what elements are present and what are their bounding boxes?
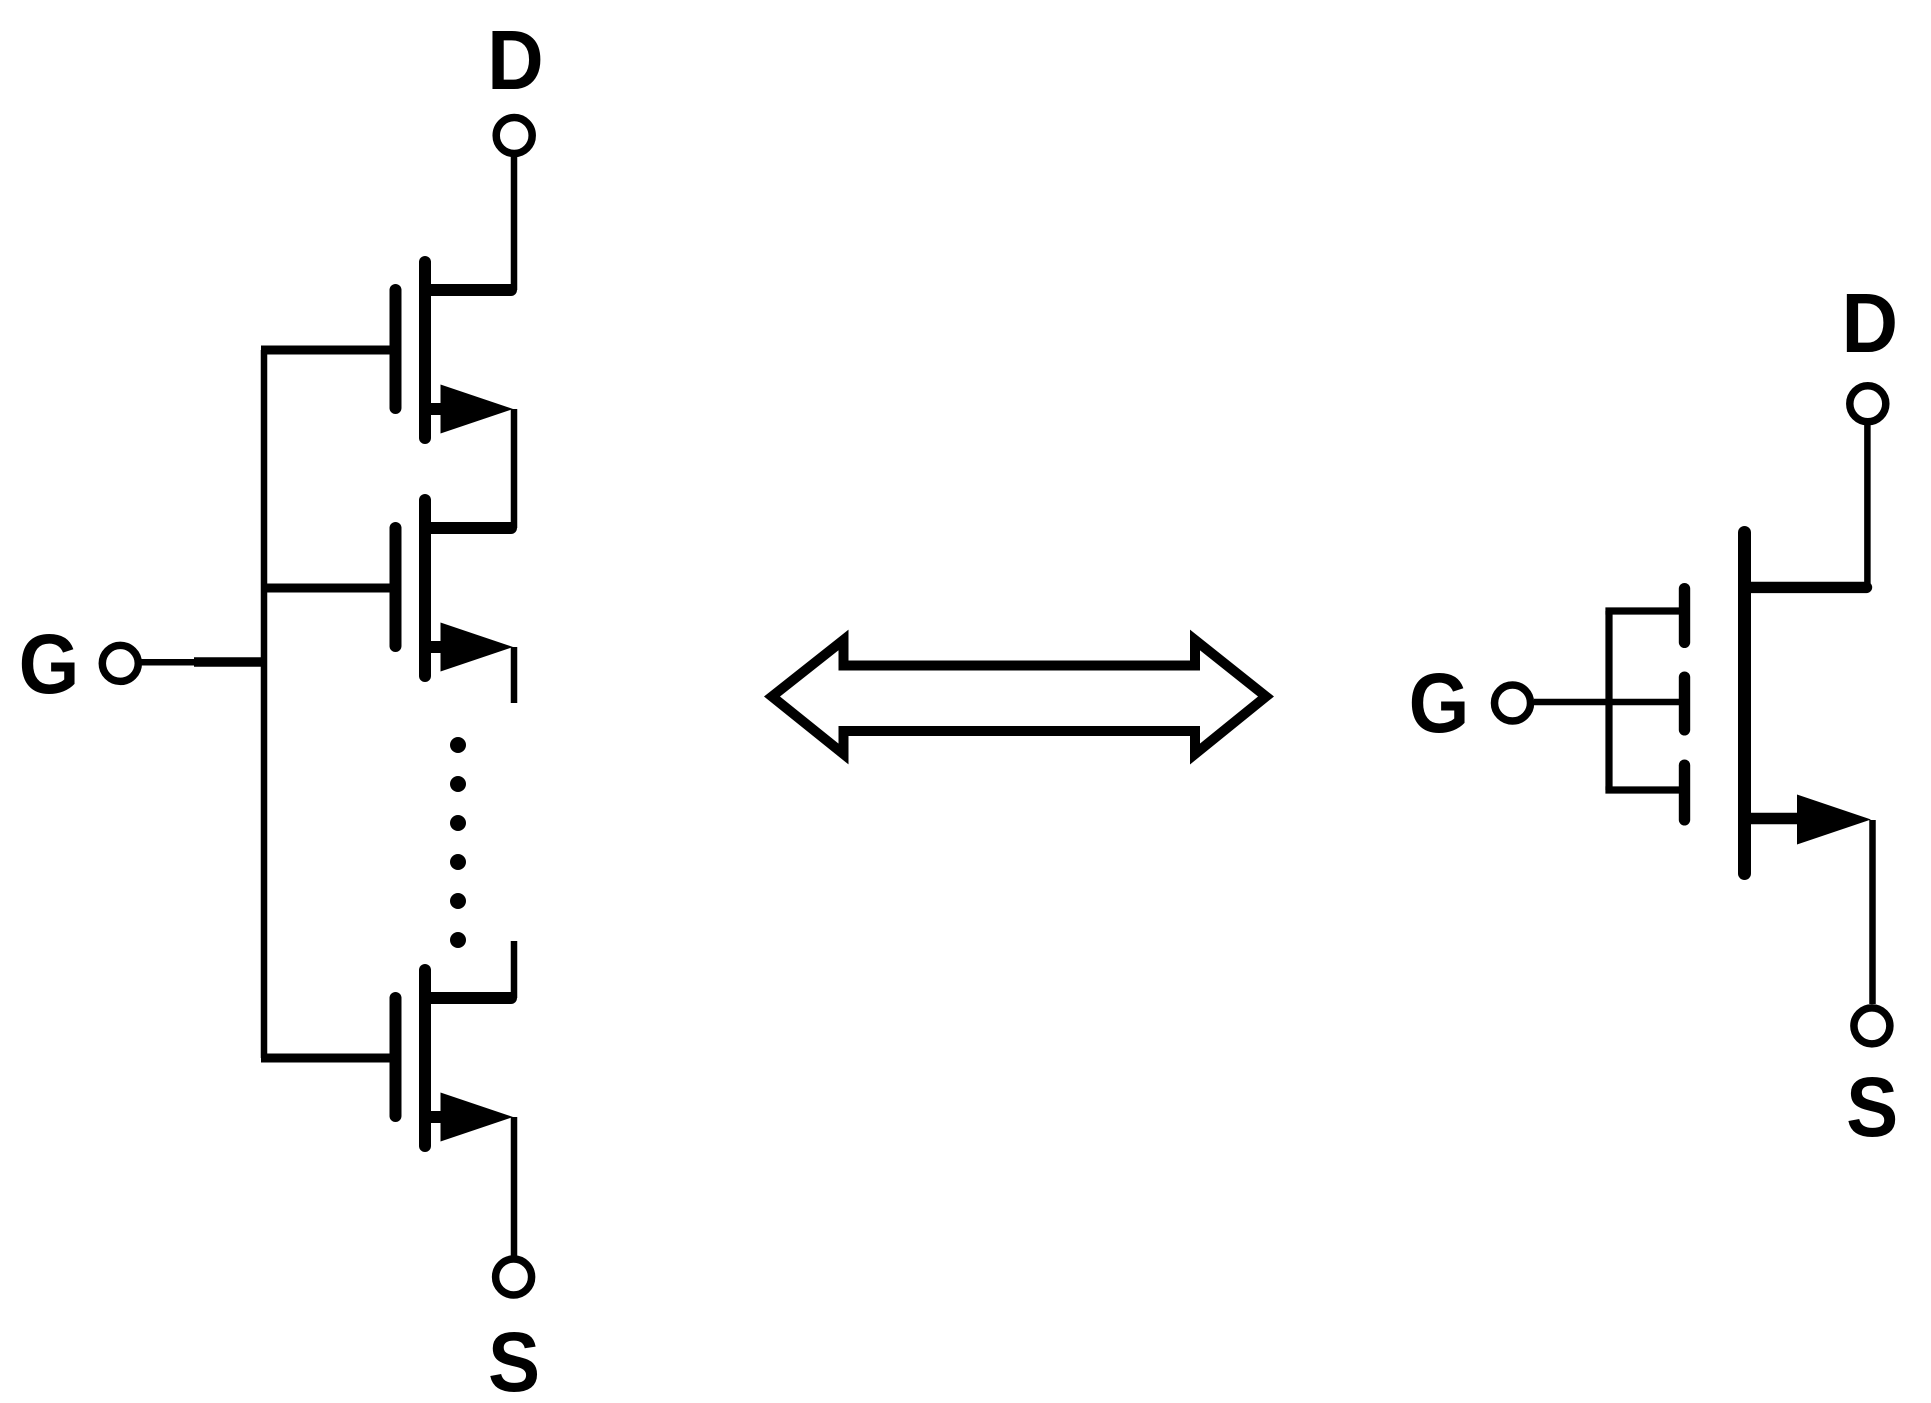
wire from D terminal to M1 drain xyxy=(511,157,518,290)
terminal S (left stack, open circle) xyxy=(496,1259,532,1295)
wire gate tie bottom xyxy=(1605,786,1684,793)
svg-text:D: D xyxy=(1842,277,1898,370)
terminal D (right, open circle) xyxy=(1850,386,1886,422)
svg-text:G: G xyxy=(1409,657,1470,750)
gate (dashed segmented gate bar) xyxy=(1679,589,1690,820)
wire G terminal to gate (middle) xyxy=(1534,699,1684,706)
wire D terminal to composite drain xyxy=(1864,425,1871,587)
dotted continuation (more series transistors) xyxy=(450,737,466,948)
wire gate lead M2 xyxy=(261,584,395,593)
wire MN source to S terminal xyxy=(511,1117,518,1256)
gate bus (vertical) xyxy=(261,350,268,1058)
transistor MN (bottom NMOS of stack) xyxy=(396,970,514,1146)
wire gate lead MN xyxy=(261,1054,395,1063)
svg-text:G: G xyxy=(19,618,80,711)
terminal G (right, open circle) xyxy=(1495,685,1531,721)
wire to MN drain (from dotted continuation) xyxy=(511,941,518,998)
wire composite source to S terminal xyxy=(1869,820,1876,1004)
transistor Mc (composite wide NMOS) xyxy=(1745,533,1872,874)
svg-text:S: S xyxy=(488,1316,540,1403)
wire G junction segment xyxy=(194,657,267,667)
wire gate tie (vertical) xyxy=(1605,611,1612,790)
wire M2 source (to dotted continuation) xyxy=(511,647,518,703)
wire G terminal to gate bus xyxy=(141,659,200,666)
wire M1 source to M2 drain xyxy=(511,409,518,528)
terminal S (right, open circle) xyxy=(1854,1008,1890,1044)
equivalence arrow (double-headed) xyxy=(772,640,1266,754)
svg-text:S: S xyxy=(1846,1061,1898,1154)
transistor M1 (top NMOS of stack) xyxy=(396,262,514,438)
terminal D (left stack, open circle) xyxy=(496,118,532,154)
transistor M2 (second NMOS of stack) xyxy=(396,500,514,676)
svg-text:D: D xyxy=(487,14,543,107)
terminal G (left, open circle) xyxy=(102,645,138,681)
wire gate lead M1 xyxy=(261,346,395,355)
wire gate tie top xyxy=(1605,607,1684,614)
